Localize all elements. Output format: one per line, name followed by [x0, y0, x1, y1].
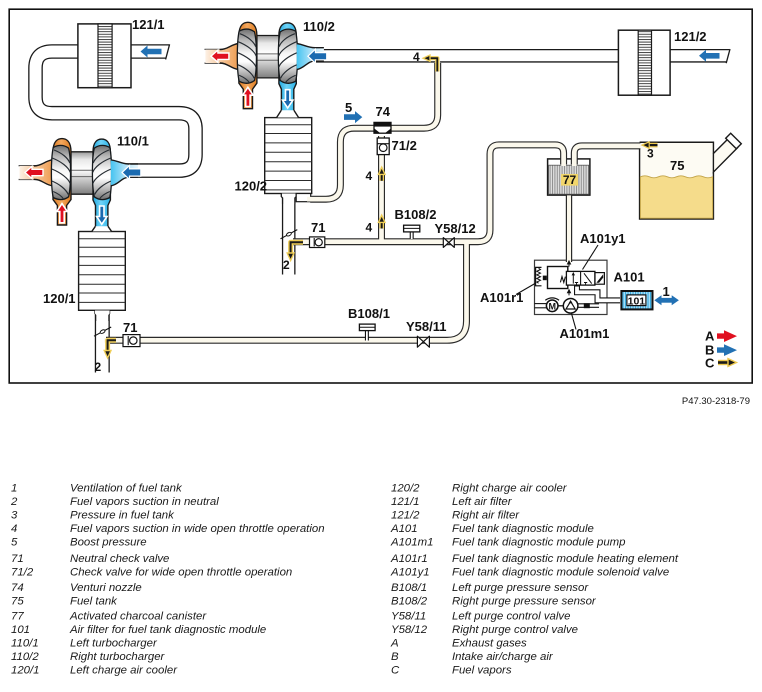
svg-text:74: 74: [11, 582, 24, 594]
svg-text:A101r1: A101r1: [390, 553, 428, 565]
wire: canister down to module A101: [566, 195, 572, 262]
svg-text:A101: A101: [390, 523, 418, 535]
air filter 101: [621, 291, 652, 309]
svg-text:74: 74: [376, 104, 391, 119]
left charge air cooler 120/1: [79, 232, 126, 322]
svg-text:101: 101: [628, 295, 646, 307]
right charge air cooler 120/2: [265, 118, 312, 204]
wire: canister pipe into module (overlap opening): [567, 257, 571, 264]
wire: pump outlet line: [576, 303, 599, 308]
svg-text:Right turbocharger: Right turbocharger: [70, 651, 166, 663]
svg-text:A: A: [390, 638, 399, 650]
svg-text:A101m1: A101m1: [560, 326, 610, 341]
svg-text:Right air filter: Right air filter: [452, 510, 520, 522]
svg-text:71: 71: [311, 220, 325, 235]
bottom-left outlet stub of 120/2: [281, 194, 296, 205]
svg-text:A101y1: A101y1: [580, 231, 626, 246]
svg-text:121/1: 121/1: [132, 17, 165, 32]
blue arrow into 121/1: [141, 46, 162, 58]
svg-text:Y58/12: Y58/12: [391, 624, 428, 636]
svg-text:Air filter for fuel tank diagn: Air filter for fuel tank diagnostic modu…: [69, 624, 266, 636]
svg-text:Exhaust gases: Exhaust gases: [452, 638, 527, 650]
svg-text:A101r1: A101r1: [480, 290, 523, 305]
svg-text:Venturi nozzle: Venturi nozzle: [70, 582, 142, 594]
svg-text:120/2: 120/2: [235, 179, 268, 194]
svg-text:Left air filter: Left air filter: [452, 496, 513, 508]
svg-text:Y58/11: Y58/11: [406, 319, 447, 334]
svg-text:C: C: [391, 665, 400, 677]
arrow 2 at valve 71 top: [287, 242, 303, 260]
right turbocharger 110/2: [205, 22, 327, 114]
svg-text:4: 4: [413, 50, 420, 64]
svg-text:4: 4: [11, 523, 17, 535]
svg-text:110/1: 110/1: [11, 638, 39, 650]
venturi nozzle 74: [374, 122, 391, 133]
svg-text:A101y1: A101y1: [390, 567, 430, 579]
svg-text:4: 4: [366, 169, 373, 183]
left air filter 121/1: [78, 24, 131, 88]
fuel (yellow) with wavy surface: [640, 176, 712, 218]
svg-text:Activated charcoal canister: Activated charcoal canister: [69, 611, 207, 623]
svg-text:120/1: 120/1: [11, 665, 40, 677]
compressor wheel: [92, 145, 111, 199]
svg-text:Pressure in fuel tank: Pressure in fuel tank: [70, 510, 175, 522]
slanted open end of 121/1 inlet: [165, 44, 177, 60]
fuel tank 75: [640, 133, 742, 219]
neutral check valve 71 (bottom): [123, 335, 140, 347]
purge pressure sensor B108/2: [404, 225, 420, 239]
arrow 2 at valve 71 bottom: [104, 340, 116, 358]
svg-text:75: 75: [670, 158, 684, 173]
exhaust horn (left, pale orange): [20, 160, 53, 186]
svg-text:110/2: 110/2: [11, 651, 39, 663]
svg-text:121/2: 121/2: [391, 510, 420, 522]
wire: white flare from 110/2 compressor down into cooler 120/2: [277, 110, 299, 117]
wire: bottom purge line from 120/1 downpipe via 71, B108/1, Y58/11 up to T junction: [106, 241, 467, 340]
wire: boost line from cooler 120/2 notch through venturi to main pipe: [310, 63, 438, 199]
svg-text:Fuel tank diagnostic module pu: Fuel tank diagnostic module pump: [452, 537, 626, 549]
svg-text:B108/1: B108/1: [348, 306, 390, 321]
svg-text:M: M: [548, 301, 556, 311]
svg-text:A101: A101: [614, 270, 645, 285]
wire: purge line from 120/2 downpipe via 71, riser T, B108/2, Y58/12 up to canister: [293, 145, 564, 242]
flow ticks above/below valve: [568, 261, 571, 267]
solenoid valve A101y1 (two-position valve): [566, 271, 604, 285]
svg-text:Left purge control valve: Left purge control valve: [452, 611, 570, 623]
wire: downpipe below cooler 120/1 (casing): [95, 308, 110, 373]
svg-text:1: 1: [11, 483, 17, 495]
wire: exhaust outlet open pipe: [19, 165, 40, 167]
slanted open end of 121/2 inlet: [726, 49, 738, 64]
svg-text:Boost pressure: Boost pressure: [70, 537, 147, 549]
svg-text:Right purge control valve: Right purge control valve: [452, 624, 578, 636]
wire: long pipe turbo 110/2 to 121/2 (casing): [316, 49, 620, 63]
svg-text:A: A: [705, 329, 715, 344]
svg-text:5: 5: [11, 537, 18, 549]
leader line A101y1: [583, 245, 599, 270]
svg-text:1: 1: [663, 284, 670, 299]
left purge control valve Y58/11: [417, 336, 429, 347]
housing (center barrel): [66, 152, 98, 194]
svg-text:Neutral check valve: Neutral check valve: [70, 553, 169, 565]
arrow 3 tank to canister: [642, 142, 658, 149]
pipe-break tick on 120/1 downpipe: [94, 327, 111, 336]
svg-text:71/2: 71/2: [392, 138, 417, 153]
blue arrow charge air down (cyan pipe): [97, 206, 107, 224]
svg-text:71: 71: [11, 553, 24, 565]
svg-text:Right purge pressure sensor: Right purge pressure sensor: [452, 596, 597, 608]
wire: white flare from 110/1 compressor down into cooler 120/1: [92, 226, 111, 231]
svg-text:Fuel tank diagnostic module: Fuel tank diagnostic module: [452, 523, 594, 535]
blue arrow 5 boost (pointing right): [344, 111, 362, 123]
svg-text:B: B: [391, 651, 399, 663]
pump housing box of module: [548, 267, 568, 289]
left turbocharger 110/1: [19, 139, 141, 231]
svg-text:2: 2: [95, 360, 102, 374]
svg-text:Right charge air cooler: Right charge air cooler: [452, 483, 568, 495]
svg-text:Left turbocharger: Left turbocharger: [70, 638, 158, 650]
svg-text:B108/2: B108/2: [391, 596, 428, 608]
arrow 4 riser upper: [378, 167, 385, 181]
svg-text:Fuel tank diagnostic module so: Fuel tank diagnostic module solenoid val…: [452, 567, 669, 579]
cores: [291, 145, 564, 242]
pipe-break tick on 120/2 downpipe: [281, 230, 298, 239]
cyan compressor pipe (vertical): [93, 139, 110, 230]
svg-text:77: 77: [563, 173, 577, 187]
svg-text:2: 2: [283, 258, 290, 272]
activated charcoal canister 77: [548, 159, 590, 195]
red arrow exhaust in (up, bottom orange pipe): [57, 204, 68, 223]
check valve for wide open throttle 71/2: [377, 138, 389, 155]
blue arrow into 121/2: [699, 50, 720, 62]
wire: canister to fuel tank vapor line: [574, 146, 641, 165]
svg-text:P47.30-2318-79: P47.30-2318-79: [682, 396, 750, 407]
double arrow 1 at filter 101: [654, 295, 679, 305]
orange exhaust pipe (vertical): [53, 139, 71, 225]
turbine wheel: [51, 145, 70, 199]
svg-text:4: 4: [366, 221, 373, 235]
wire: 121/2 inlet stub (casing): [668, 49, 729, 63]
leader line A101m1: [572, 314, 577, 330]
cores: [36, 52, 196, 171]
svg-text:121/1: 121/1: [391, 496, 420, 508]
leader line A101r1: [516, 284, 535, 295]
svg-text:5: 5: [345, 100, 352, 115]
arrow 4 bent at top junction: [423, 55, 437, 72]
bottom outlet stub of 120/1: [95, 310, 110, 321]
svg-text:121/2: 121/2: [674, 29, 707, 44]
svg-text:120/1: 120/1: [43, 291, 76, 306]
open left wall gap: pipe enters tank: [640, 141, 712, 143]
svg-text:77: 77: [11, 611, 24, 623]
heating element A101r1 (coil with bracket): [536, 267, 547, 285]
compressor inlet horn (right, light blue): [111, 160, 138, 186]
svg-text:101: 101: [11, 624, 30, 636]
svg-text:Ventilation of fuel tank: Ventilation of fuel tank: [70, 483, 183, 495]
svg-text:3: 3: [647, 147, 654, 161]
svg-text:C: C: [705, 356, 715, 371]
right air filter 121/2: [618, 30, 670, 95]
right purge control valve Y58/12: [443, 238, 454, 248]
wire: 121/1 inlet stub (casing): [128, 44, 169, 59]
svg-text:2: 2: [10, 496, 18, 508]
svg-text:Fuel vapors: Fuel vapors: [452, 665, 512, 677]
svg-text:Y58/12: Y58/12: [435, 221, 476, 236]
svg-text:Intake air/charge air: Intake air/charge air: [452, 651, 554, 663]
svg-text:B108/2: B108/2: [395, 207, 437, 222]
svg-text:71: 71: [123, 320, 137, 335]
arrow 4 riser lower: [378, 215, 385, 228]
svg-text:110/1: 110/1: [117, 134, 149, 149]
label 77 on canister: [561, 173, 578, 187]
svg-text:A101m1: A101m1: [390, 537, 433, 549]
svg-text:B108/1: B108/1: [391, 582, 427, 594]
filler neck of tank 75: [713, 139, 737, 173]
border frame: [9, 9, 752, 383]
svg-text:75: 75: [11, 596, 24, 608]
blue arrow into compressor (left): [122, 166, 141, 180]
fuel tank diagnostic module A101 (housing): [535, 260, 608, 314]
wire: downpipe below cooler 120/2 (casing): [282, 192, 296, 275]
svg-text:Fuel tank: Fuel tank: [70, 596, 118, 608]
svg-text:Left charge air cooler: Left charge air cooler: [70, 665, 178, 677]
module motor M: [535, 298, 564, 312]
wire: valve outlet stepped pipe to filter: [577, 286, 622, 301]
svg-text:Y58/11: Y58/11: [391, 611, 426, 623]
module pump A101m1: [563, 299, 578, 314]
red arrow exhaust out (left): [25, 166, 43, 178]
svg-text:110/2: 110/2: [303, 19, 335, 34]
svg-text:Left purge pressure sensor: Left purge pressure sensor: [452, 582, 589, 594]
svg-text:Fuel vapors suction in wide op: Fuel vapors suction in wide open throttl…: [70, 523, 325, 535]
svg-text:71/2: 71/2: [11, 567, 34, 579]
svg-text:Fuel vapors suction in neutral: Fuel vapors suction in neutral: [70, 496, 219, 508]
svg-text:Check valve for wide open thro: Check valve for wide open throttle opera…: [70, 567, 292, 579]
svg-text:120/2: 120/2: [391, 483, 420, 495]
bottom-right boost outlet notch of 120/2: [296, 194, 311, 202]
purge pressure sensor B108/1: [359, 324, 375, 341]
wire: 121/1 outlet S-path to turbo 110/1 compressor inlet (casing): [36, 52, 196, 171]
neutral check valve 71 (top, on purge line): [310, 237, 325, 248]
wire: riser to venturi 74 / check valve 71/2: [378, 136, 385, 242]
svg-text:Fuel tank diagnostic module he: Fuel tank diagnostic module heating elem…: [452, 553, 679, 565]
svg-text:3: 3: [11, 510, 18, 522]
